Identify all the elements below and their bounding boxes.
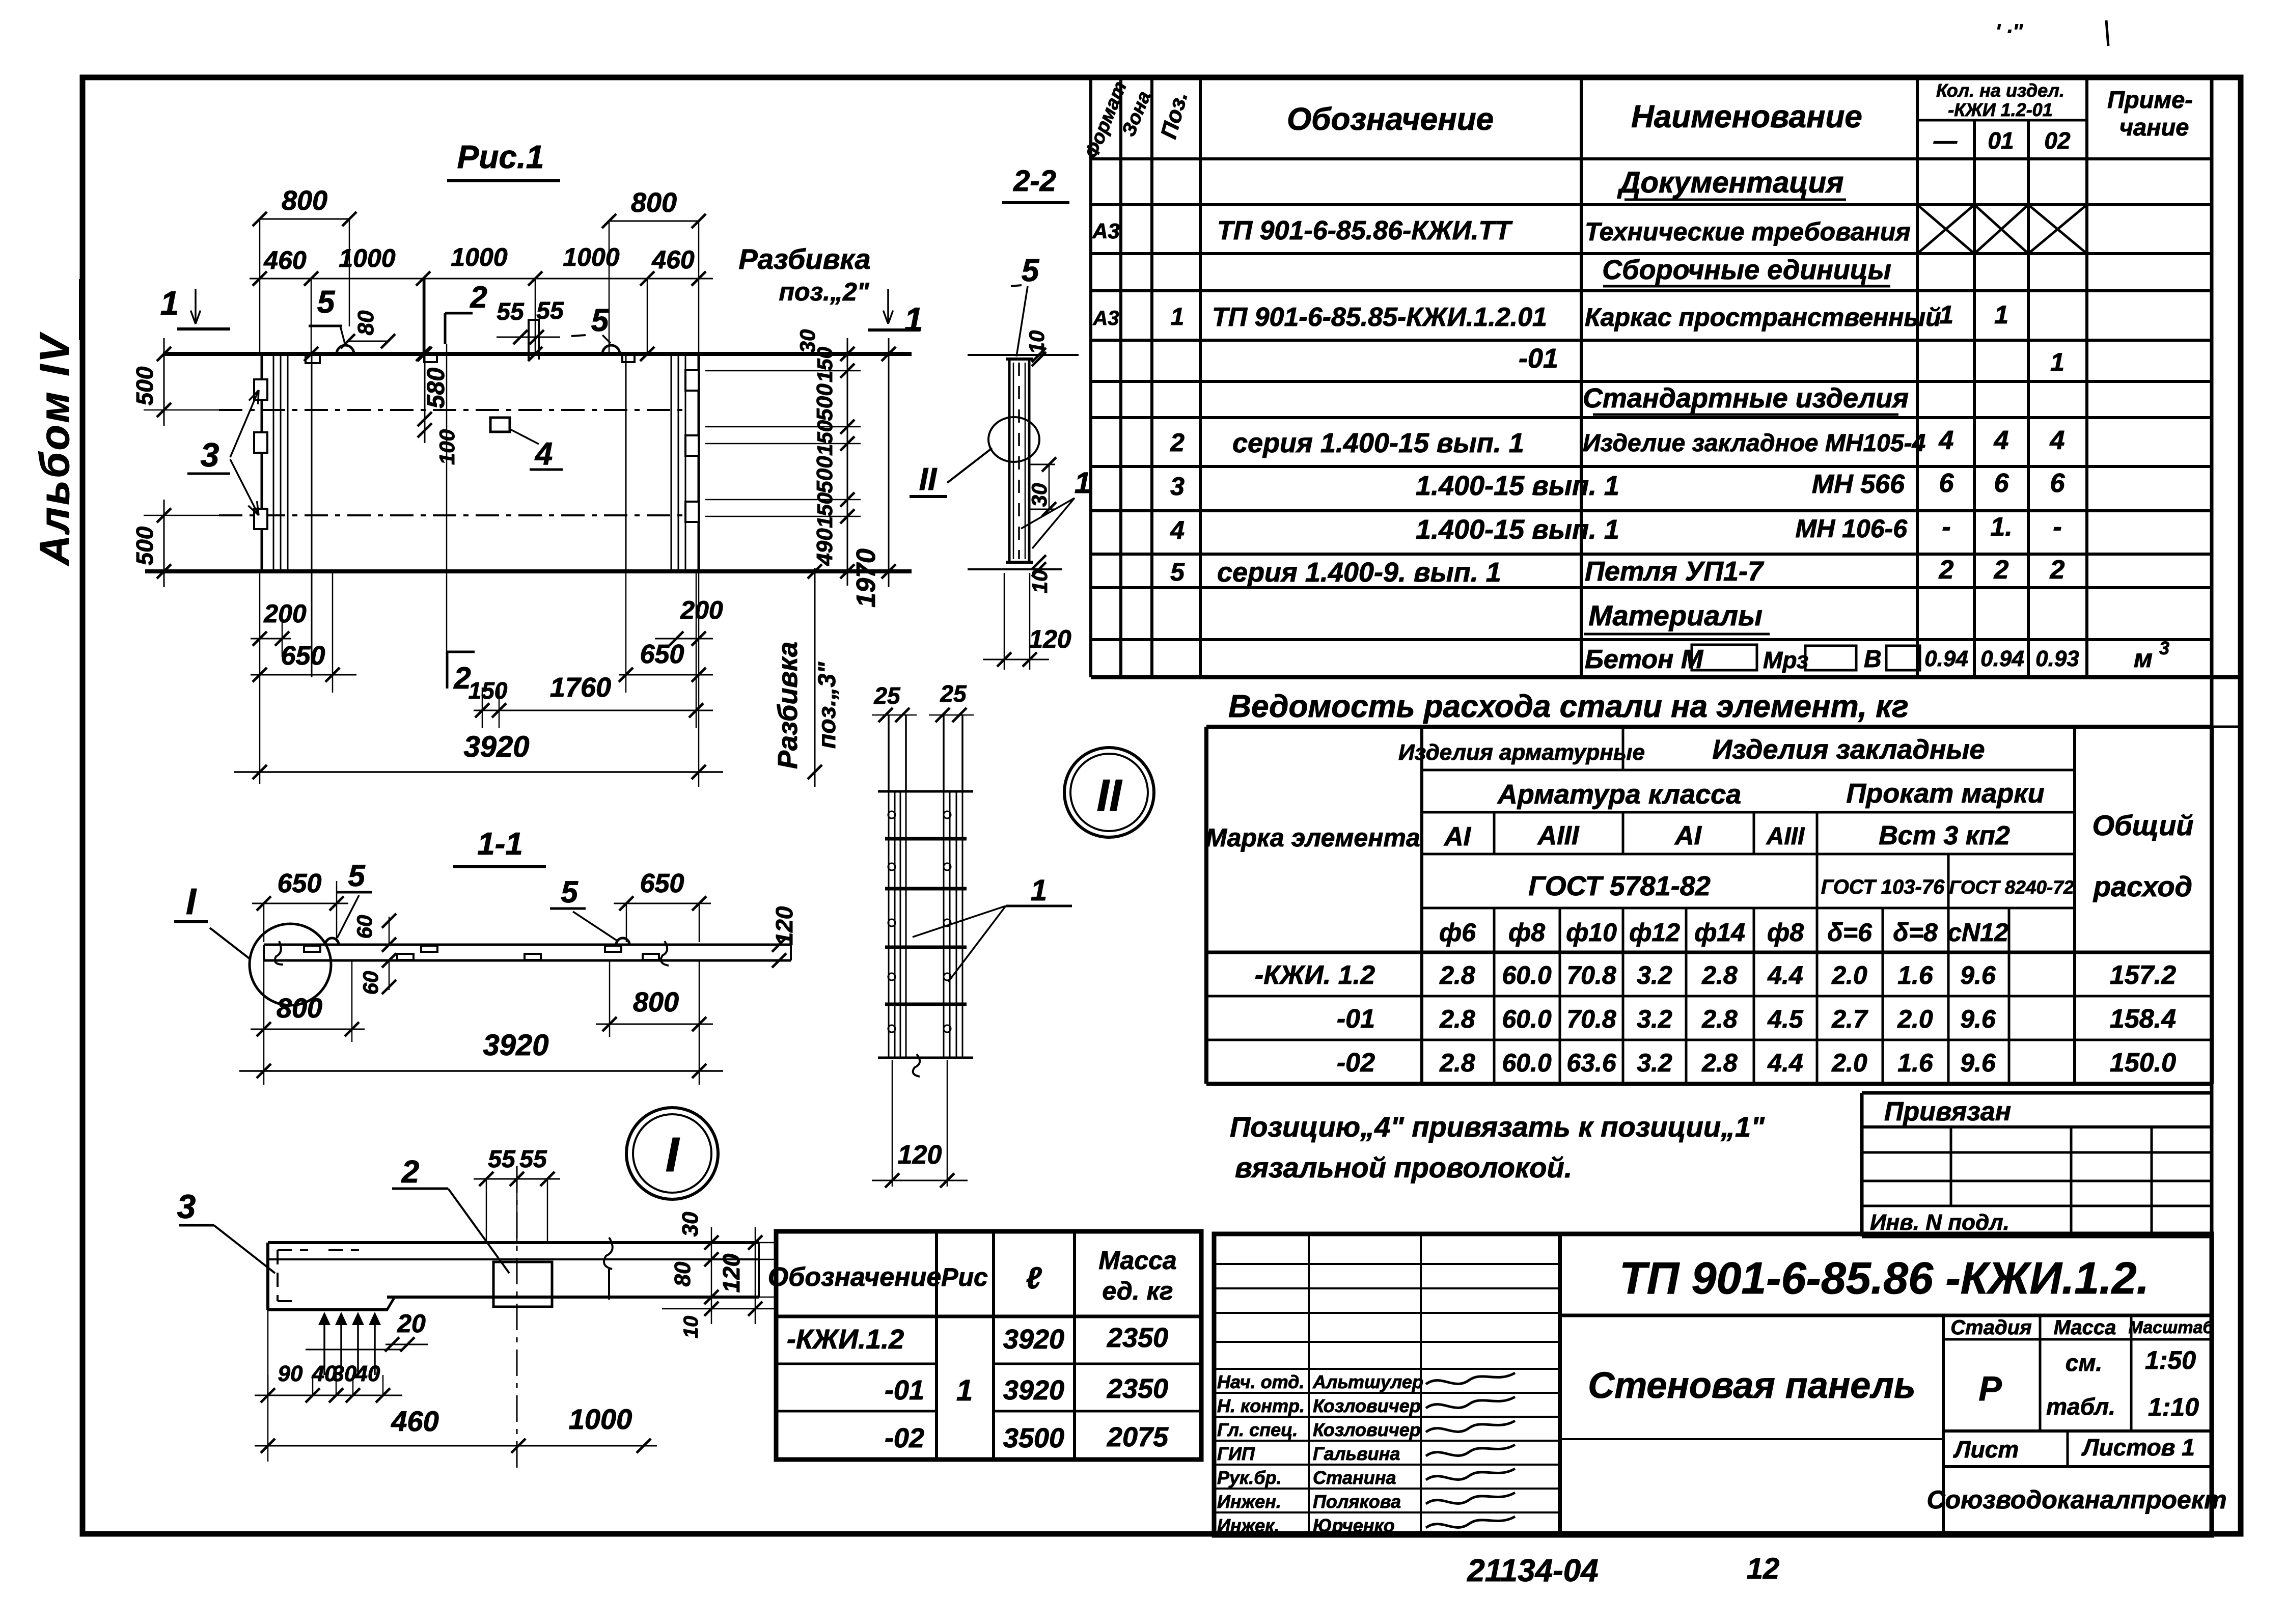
svg-text:Каркас пространственный: Каркас пространственный	[1585, 303, 1941, 332]
svg-text:01: 01	[1988, 127, 2014, 154]
svg-text:2.8: 2.8	[1701, 961, 1738, 989]
svg-text:3: 3	[1170, 472, 1185, 501]
svg-text:АIII: АIII	[1537, 821, 1580, 850]
svg-text:ТП 901-6-85.85-КЖИ.1.2.01: ТП 901-6-85.85-КЖИ.1.2.01	[1212, 302, 1547, 332]
svg-text:ф12: ф12	[1629, 918, 1680, 947]
svg-text:650: 650	[281, 641, 325, 671]
svg-text:4: 4	[1939, 426, 1954, 455]
title block	[1214, 1234, 2212, 1535]
svg-text:1000: 1000	[563, 243, 619, 271]
svg-text:Листов 1: Листов 1	[2081, 1434, 2195, 1461]
svg-text:II: II	[1097, 770, 1122, 820]
svg-text:Разбивка: Разбивка	[738, 243, 870, 275]
top dim row 800s	[260, 218, 349, 220]
svg-text:Лист: Лист	[1953, 1436, 2019, 1463]
svg-text:3920: 3920	[1003, 1375, 1064, 1406]
top edge plates	[306, 354, 320, 363]
svg-text:—: —	[1933, 127, 1958, 154]
svg-text:АIII: АIII	[1766, 823, 1805, 850]
svg-text:460: 460	[651, 245, 695, 274]
svg-text:' ·'': ' ·''	[1996, 20, 2023, 43]
svg-text:2350: 2350	[1107, 1373, 1168, 1404]
right dim stack	[847, 338, 848, 586]
svg-text:Привязан: Привязан	[1884, 1097, 2011, 1126]
svg-text:30: 30	[795, 329, 819, 353]
120 dim	[892, 1060, 893, 1187]
svg-text:поз.„2": поз.„2"	[779, 278, 869, 306]
svg-text:-КЖИ 1.2-01: -КЖИ 1.2-01	[1948, 99, 2052, 120]
800 dims 1-1	[251, 1029, 365, 1030]
svg-text:650: 650	[640, 640, 684, 669]
svg-text:1: 1	[1994, 300, 2008, 329]
top dim row 460/1000	[250, 278, 713, 280]
privyazan block	[1860, 1093, 1864, 1236]
svg-text:Стадия: Стадия	[1950, 1316, 2031, 1339]
svg-text:55: 55	[488, 1146, 516, 1173]
svg-text:200: 200	[680, 596, 723, 624]
svg-text:ед. кг: ед. кг	[1102, 1277, 1173, 1305]
svg-text:-КЖИ.1.2: -КЖИ.1.2	[787, 1324, 904, 1355]
svg-text:АI: АI	[1443, 822, 1472, 851]
1970 dim	[888, 338, 890, 587]
detail II callout circle	[988, 417, 1039, 462]
steel consumption table	[1206, 725, 2212, 729]
svg-text:580: 580	[423, 368, 450, 408]
svg-text:1.6: 1.6	[1897, 1049, 1934, 1077]
svg-text:150: 150	[469, 677, 508, 704]
svg-text:Арматура класса: Арматура класса	[1497, 779, 1741, 810]
pos4 plate	[490, 418, 510, 432]
svg-text:3: 3	[201, 436, 219, 474]
svg-text:80: 80	[670, 1261, 695, 1286]
svg-text:150: 150	[813, 420, 837, 456]
column bars above cap	[888, 715, 890, 791]
svg-text:-КЖИ. 1.2: -КЖИ. 1.2	[1255, 960, 1375, 990]
embedded plates pos3 left	[254, 379, 267, 400]
svg-text:158.4: 158.4	[2110, 1004, 2176, 1034]
svg-text:Изделие закладное МН105-4: Изделие закладное МН105-4	[1583, 430, 1925, 457]
svg-text:2: 2	[470, 280, 487, 314]
svg-text:6: 6	[1994, 469, 2009, 498]
svg-text:3920: 3920	[463, 730, 529, 763]
svg-text:90: 90	[278, 1361, 303, 1386]
svg-text:Мрз: Мрз	[1763, 647, 1808, 673]
svg-text:4.4: 4.4	[1767, 1049, 1803, 1077]
svg-text:60.0: 60.0	[1502, 1049, 1552, 1077]
svg-text:Марка элемента: Марка элемента	[1205, 823, 1420, 852]
svg-text:12: 12	[1747, 1552, 1780, 1585]
svg-text:Технические требования: Технические требования	[1585, 217, 1911, 246]
svg-text:3.2: 3.2	[1637, 1049, 1672, 1077]
svg-text:I: I	[186, 882, 197, 922]
svg-text:200: 200	[263, 599, 307, 628]
svg-text:1: 1	[904, 300, 923, 338]
svg-text:70.8: 70.8	[1566, 961, 1616, 989]
svg-text:4: 4	[1170, 516, 1185, 544]
svg-text:02: 02	[2044, 127, 2071, 154]
svg-text:6: 6	[1939, 469, 1954, 498]
svg-text:800: 800	[631, 187, 677, 218]
detail I big circle	[626, 1108, 718, 1199]
svg-text:сN12: сN12	[1947, 918, 2008, 947]
anchors arrows	[323, 1314, 325, 1375]
svg-text:5: 5	[1022, 253, 1040, 288]
svg-text:2.8: 2.8	[1701, 1049, 1738, 1077]
svg-text:650: 650	[278, 869, 322, 898]
mass table	[776, 1231, 1201, 1460]
svg-text:Кол. на издел.: Кол. на издел.	[1936, 80, 2064, 101]
svg-text:Рис.1: Рис.1	[457, 139, 544, 175]
svg-text:120: 120	[1029, 625, 1071, 653]
detail II circle label	[1064, 748, 1154, 837]
svg-text:1: 1	[956, 1374, 973, 1407]
svg-text:-: -	[2053, 512, 2061, 542]
column body	[878, 790, 973, 793]
svg-text:ℓ: ℓ	[1026, 1261, 1042, 1295]
svg-text:-01: -01	[1337, 1004, 1375, 1034]
svg-text:В: В	[1864, 646, 1882, 673]
svg-text:55: 55	[497, 298, 525, 325]
svg-text:4: 4	[1994, 426, 2009, 455]
svg-text:3500: 3500	[1003, 1423, 1064, 1453]
svg-text:Прокат марки: Прокат марки	[1846, 778, 2044, 809]
svg-text:ТП 901-6-85.86-КЖИ.ТТ: ТП 901-6-85.86-КЖИ.ТТ	[1217, 216, 1513, 245]
svg-text:ГОСТ 8240-72: ГОСТ 8240-72	[1949, 877, 2074, 898]
svg-text:21134-04: 21134-04	[1467, 1553, 1598, 1588]
svg-text:500: 500	[131, 526, 158, 565]
svg-text:ГОСТ 5781-82: ГОСТ 5781-82	[1528, 871, 1711, 901]
svg-text:серия 1.400-9. вып. 1: серия 1.400-9. вып. 1	[1217, 557, 1501, 588]
svg-text:Наименование: Наименование	[1631, 99, 1862, 134]
center line	[516, 1166, 518, 1474]
svg-text:1: 1	[1171, 304, 1185, 331]
svg-text:2350: 2350	[1107, 1323, 1168, 1353]
lifting loops pos5	[337, 345, 354, 354]
svg-text:2.8: 2.8	[1439, 961, 1475, 989]
svg-text:70.8: 70.8	[1566, 1005, 1616, 1033]
pos2 plate	[493, 1262, 552, 1307]
svg-text:2: 2	[1170, 428, 1185, 457]
svg-text:1: 1	[160, 284, 179, 322]
svg-text:Стеновая панель: Стеновая панель	[1588, 1365, 1916, 1406]
svg-text:1:50: 1:50	[2145, 1346, 2196, 1374]
svg-text:Козловичер: Козловичер	[1313, 1419, 1421, 1440]
55 55 dims	[474, 1178, 560, 1180]
svg-text:вязальной проволокой.: вязальной проволокой.	[1235, 1151, 1572, 1183]
svg-text:Обозначение: Обозначение	[1287, 102, 1494, 137]
650 dims 1-1	[252, 903, 348, 904]
svg-text:3920: 3920	[483, 1029, 548, 1062]
svg-text:60: 60	[352, 915, 376, 939]
460 / 1000 dims	[255, 1445, 657, 1447]
svg-text:МН 566: МН 566	[1812, 470, 1905, 499]
svg-text:2.8: 2.8	[1701, 1005, 1738, 1033]
svg-text:460: 460	[263, 246, 307, 274]
svg-text:Рук.бр.: Рук.бр.	[1217, 1467, 1282, 1488]
svg-text:Гальвина: Гальвина	[1313, 1443, 1400, 1464]
svg-text:ГИП: ГИП	[1217, 1443, 1255, 1464]
svg-text:120: 120	[718, 1253, 745, 1292]
svg-text:1000: 1000	[339, 244, 395, 272]
plates on band	[304, 946, 320, 952]
svg-text:ф8: ф8	[1767, 918, 1804, 947]
loops	[325, 938, 339, 945]
svg-text:20: 20	[397, 1309, 426, 1338]
svg-text:0.94: 0.94	[1924, 646, 1968, 671]
svg-text:3: 3	[177, 1188, 196, 1225]
svg-text:4.5: 4.5	[1767, 1005, 1804, 1033]
svg-text:-: -	[1942, 512, 1950, 542]
svg-text:6: 6	[2050, 469, 2066, 498]
svg-text:Изделия арматурные: Изделия арматурные	[1398, 740, 1645, 765]
svg-text:δ=6: δ=6	[1827, 918, 1873, 947]
svg-text:Масштаб: Масштаб	[2129, 1318, 2214, 1337]
svg-text:10: 10	[680, 1316, 702, 1339]
svg-text:Станина: Станина	[1313, 1467, 1396, 1488]
svg-text:Рис: Рис	[941, 1263, 988, 1291]
svg-text:Позицию„4" привязать к позици: Позицию„4" привязать к позиции„1"	[1230, 1111, 1765, 1143]
svg-text:2.0: 2.0	[1831, 1049, 1867, 1077]
svg-text:60.0: 60.0	[1502, 1005, 1552, 1033]
svg-text:10: 10	[1028, 570, 1052, 594]
embedded plates right	[685, 370, 699, 391]
break squiggles	[275, 941, 283, 965]
svg-text:800: 800	[282, 185, 327, 216]
svg-text:2075: 2075	[1107, 1422, 1169, 1452]
svg-text:1000: 1000	[569, 1403, 632, 1435]
embedded plate pos3 dashes	[278, 1250, 359, 1301]
svg-text:Союзводоканалпроект: Союзводоканалпроект	[1926, 1485, 2226, 1514]
1-1 band	[264, 944, 791, 946]
svg-text:см.: см.	[2066, 1350, 2102, 1376]
svg-text:Петля УП1-7: Петля УП1-7	[1585, 556, 1765, 587]
svg-text:Приме-: Приме-	[2107, 86, 2193, 113]
svg-text:2.7: 2.7	[1831, 1005, 1868, 1033]
break mark 4	[604, 1237, 613, 1300]
svg-text:Н. контр.: Н. контр.	[1217, 1395, 1305, 1416]
svg-text:Документация: Документация	[1617, 166, 1844, 199]
specification table grid	[1089, 77, 1092, 677]
svg-text:чание: чание	[2119, 114, 2189, 141]
svg-text:150: 150	[813, 492, 837, 528]
svg-text:25: 25	[873, 682, 901, 709]
svg-text:1: 1	[1075, 466, 1091, 500]
fig1 panel outline	[163, 352, 912, 356]
svg-text:Стандартные изделия: Стандартные изделия	[1583, 383, 1909, 414]
svg-text:расход: расход	[2093, 870, 2192, 902]
svg-text:80: 80	[353, 310, 378, 335]
svg-text:500: 500	[812, 383, 837, 421]
section 2-2 strip	[968, 354, 1079, 356]
svg-text:ф6: ф6	[1439, 918, 1476, 947]
svg-text:Полякова: Полякова	[1313, 1491, 1401, 1512]
svg-text:ГОСТ 103-76: ГОСТ 103-76	[1821, 876, 1945, 898]
3920 dim 1-1	[239, 1070, 723, 1072]
svg-text:ф10: ф10	[1566, 918, 1617, 947]
svg-text:0.93: 0.93	[2035, 646, 2079, 671]
svg-text:2: 2	[2050, 555, 2065, 585]
svg-text:40: 40	[355, 1361, 380, 1386]
detail I circle on band	[250, 924, 331, 1005]
svg-text:1: 1	[2050, 348, 2064, 376]
svg-text:25: 25	[940, 680, 967, 707]
svg-text:2.0: 2.0	[1897, 1005, 1933, 1033]
svg-text:157.2: 157.2	[2110, 960, 2176, 990]
crossed cells	[1917, 205, 1974, 254]
svg-text:490: 490	[812, 528, 837, 566]
svg-text:II: II	[919, 462, 938, 497]
svg-text:55: 55	[519, 1146, 547, 1173]
svg-text:5: 5	[561, 875, 579, 909]
svg-text:5: 5	[1170, 558, 1185, 586]
svg-text:5: 5	[591, 303, 610, 338]
svg-text:63.6: 63.6	[1566, 1049, 1617, 1077]
svg-text:δ=8: δ=8	[1893, 918, 1938, 947]
svg-text:1760: 1760	[550, 672, 611, 703]
svg-text:2.0: 2.0	[1831, 961, 1867, 989]
svg-text:500: 500	[131, 366, 158, 405]
svg-text:460: 460	[391, 1405, 438, 1437]
svg-text:1.400-15 вып. 1: 1.400-15 вып. 1	[1416, 514, 1619, 545]
svg-text:3920: 3920	[1003, 1324, 1064, 1355]
svg-text:2-2: 2-2	[1013, 164, 1056, 198]
svg-text:1:10: 1:10	[2148, 1393, 2199, 1421]
svg-text:Бетон М: Бетон М	[1585, 645, 1704, 674]
svg-text:Изделия закладные: Изделия закладные	[1712, 734, 1985, 765]
svg-text:150.0: 150.0	[2110, 1048, 2176, 1078]
svg-text:Материалы: Материалы	[1588, 599, 1763, 631]
svg-text:1.: 1.	[1990, 512, 2012, 542]
svg-text:ф8: ф8	[1508, 918, 1545, 947]
svg-text:800: 800	[633, 987, 679, 1017]
svg-text:м: м	[2134, 644, 2153, 673]
svg-text:650: 650	[640, 869, 684, 898]
svg-text:Общий: Общий	[2092, 809, 2193, 841]
svg-text:120: 120	[898, 1140, 942, 1170]
svg-text:500: 500	[812, 456, 837, 493]
svg-text:ф14: ф14	[1694, 918, 1745, 947]
svg-text:Обозначение: Обозначение	[768, 1262, 942, 1292]
svg-text:серия 1.400-15 вып. 1: серия 1.400-15 вып. 1	[1232, 428, 1524, 458]
svg-text:А3: А3	[1092, 219, 1120, 243]
svg-text:Козловичер: Козловичер	[1313, 1395, 1421, 1416]
svg-text:60.0: 60.0	[1502, 961, 1552, 989]
svg-text:1: 1	[1031, 874, 1047, 907]
svg-text:-01: -01	[885, 1375, 924, 1406]
section cut 2 bottom	[446, 652, 449, 689]
svg-text:5: 5	[317, 285, 336, 320]
svg-text:1000: 1000	[451, 243, 507, 271]
svg-text:-01: -01	[1519, 343, 1558, 374]
svg-text:табл.: табл.	[2046, 1393, 2115, 1420]
svg-text:2.8: 2.8	[1439, 1049, 1475, 1077]
svg-text:9.6: 9.6	[1960, 1005, 1996, 1033]
svg-text:2: 2	[1939, 555, 1954, 585]
svg-text:1: 1	[1939, 300, 1953, 329]
svg-text:Альтшулер: Альтшулер	[1312, 1371, 1423, 1392]
svg-text:поз.„3": поз.„3"	[814, 662, 841, 749]
svg-text:Вст 3 кп2: Вст 3 кп2	[1879, 821, 2010, 850]
svg-text:Инжен.: Инжен.	[1217, 1491, 1281, 1512]
svg-text:Нач. отд.: Нач. отд.	[1217, 1371, 1304, 1392]
svg-text:Р: Р	[1978, 1369, 2002, 1408]
svg-text:-02: -02	[1337, 1048, 1375, 1078]
svg-text:0.94: 0.94	[1980, 646, 2024, 671]
svg-text:Масса: Масса	[2054, 1316, 2116, 1339]
svg-text:-02: -02	[885, 1423, 924, 1453]
svg-text:А3: А3	[1092, 307, 1119, 329]
svg-text:1.6: 1.6	[1897, 961, 1934, 989]
svg-text:3.2: 3.2	[1637, 1005, 1672, 1033]
svg-text:60: 60	[359, 971, 382, 995]
right side dims	[662, 1242, 774, 1244]
svg-text:2.8: 2.8	[1439, 1005, 1475, 1033]
pos2 channel top	[528, 319, 530, 360]
svg-text:55: 55	[536, 297, 564, 324]
svg-text:1.400-15 вып. 1: 1.400-15 вып. 1	[1416, 471, 1619, 501]
svg-text:2: 2	[1994, 555, 2009, 585]
svg-text:Ведомость расхода стали на эл: Ведомость расхода стали на элемент, кг	[1228, 689, 1909, 724]
svg-text:Разбивка: Разбивка	[773, 642, 803, 769]
svg-text:Инв. N подл.: Инв. N подл.	[1870, 1210, 2009, 1235]
svg-text:МН 106-6: МН 106-6	[1795, 514, 1908, 543]
svg-text:3.2: 3.2	[1637, 961, 1672, 989]
svg-text:1-1: 1-1	[477, 827, 523, 862]
svg-text:2: 2	[401, 1154, 419, 1190]
detail plan outline	[268, 1241, 759, 1244]
svg-text:3: 3	[2159, 638, 2169, 658]
razbivka poz3 vertical	[814, 568, 816, 787]
svg-text:800: 800	[277, 993, 322, 1024]
section cut 2 top	[444, 313, 447, 344]
svg-text:Альбом IV: Альбом IV	[32, 332, 78, 566]
svg-text:4: 4	[2050, 426, 2065, 455]
svg-text:ТП 901-6-85.86 -КЖИ.1.2.: ТП 901-6-85.86 -КЖИ.1.2.	[1619, 1253, 2149, 1303]
svg-text:I: I	[666, 1127, 680, 1182]
svg-text:9.6: 9.6	[1960, 961, 1996, 989]
svg-text:Юрченко: Юрченко	[1313, 1515, 1395, 1536]
svg-text:4.4: 4.4	[1767, 961, 1803, 989]
svg-text:30: 30	[678, 1212, 703, 1236]
svg-text:Сборочные единицы: Сборочные единицы	[1602, 255, 1891, 285]
svg-text:АI: АI	[1674, 821, 1702, 850]
svg-text:Гл. спец.: Гл. спец.	[1217, 1419, 1298, 1440]
svg-text:5: 5	[348, 859, 366, 893]
svg-text:Инжек.: Инжек.	[1217, 1515, 1279, 1536]
svg-text:Масса: Масса	[1098, 1246, 1177, 1275]
svg-text:9.6: 9.6	[1960, 1049, 1996, 1077]
svg-text:30: 30	[1027, 483, 1051, 507]
svg-text:4: 4	[534, 436, 553, 472]
bottom dims fig1	[251, 638, 291, 640]
svg-text:1970: 1970	[851, 548, 881, 608]
